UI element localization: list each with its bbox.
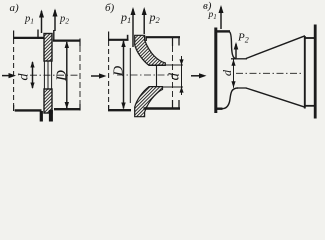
left wall end tick a	[43, 35, 45, 39]
flow arrow into a	[2, 73, 16, 78]
svg-text:d: d	[167, 73, 183, 81]
D dimension line b	[121, 40, 125, 110]
orifice plate upper (hatched)	[44, 34, 52, 62]
left end line b	[108, 32, 110, 112]
throat extension line upper	[149, 64, 184, 66]
outlet inner flange line	[304, 36, 306, 109]
throat bottom line	[238, 87, 247, 89]
tap arrow p1 b	[131, 7, 136, 47]
bottom wall left b	[108, 109, 131, 111]
svg-text:D: D	[54, 70, 70, 82]
converging step top	[230, 32, 237, 59]
flow arrow a to b	[91, 73, 107, 78]
tap arrow p2 b	[142, 7, 147, 34]
outlet flange face	[314, 25, 317, 119]
right wall start tick b	[145, 37, 147, 42]
right end line b	[172, 37, 174, 109]
right end line a	[79, 39, 81, 111]
tap arrow p2	[53, 9, 58, 32]
orifice bore lines	[44, 61, 51, 89]
inlet bottom wall v	[215, 107, 223, 109]
flow arrow b to v	[191, 73, 207, 78]
tap arrow p2 v	[234, 42, 239, 58]
top wall left b	[108, 39, 129, 41]
outlet bottom wall	[305, 105, 315, 107]
top wall left	[13, 37, 44, 39]
centerline v	[236, 72, 303, 74]
right wall tick b bottom	[178, 100, 180, 110]
tap arrow p1	[39, 10, 44, 34]
right wall tick b top	[178, 37, 180, 46]
diverging cone top	[246, 36, 305, 59]
D dimension line	[65, 41, 69, 109]
bottom wall left	[15, 109, 42, 111]
inlet top wall v	[215, 30, 230, 32]
bottom wall right	[54, 108, 80, 110]
bottom flange stub right	[49, 110, 53, 122]
converging step bottom	[223, 88, 239, 109]
left flange edge	[37, 30, 39, 39]
throat extension line lower	[149, 86, 184, 88]
right flange edge	[53, 30, 55, 41]
svg-text:d: d	[220, 69, 234, 76]
nozzle throat exit edge	[156, 65, 158, 86]
d dimension line v	[231, 59, 235, 87]
d dimension line b (outside arrows)	[179, 56, 183, 95]
svg-text:б): б)	[105, 2, 115, 14]
bottom wall right b	[144, 107, 181, 109]
nozzle inlet face line	[129, 48, 131, 103]
left wall end tick b	[127, 35, 129, 41]
centerline b	[117, 74, 171, 76]
d dimension line	[30, 61, 34, 89]
inlet flange bar v	[214, 28, 217, 114]
top wall right b	[146, 36, 181, 38]
diverging cone bottom	[246, 88, 305, 107]
centerline a	[30, 74, 80, 76]
bottom flange stub left	[40, 111, 43, 122]
left end line (break)	[13, 31, 15, 112]
nozzle lower (hatched)	[135, 87, 163, 117]
top wall right	[53, 39, 81, 41]
svg-text:d: d	[17, 73, 32, 81]
outlet top wall	[305, 37, 315, 39]
nozzle upper (hatched)	[135, 35, 166, 65]
throat top line	[231, 58, 247, 60]
svg-text:а): а)	[10, 2, 20, 14]
tap arrow p1 v	[219, 5, 224, 29]
orifice plate lower (hatched)	[44, 89, 52, 113]
